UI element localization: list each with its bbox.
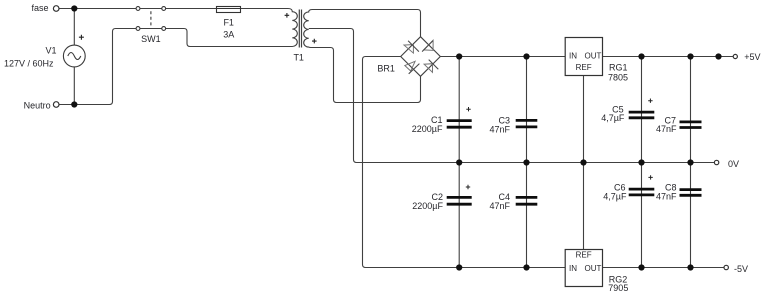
svg-text:2200µF: 2200µF bbox=[412, 201, 443, 211]
svg-text:T1: T1 bbox=[293, 52, 304, 62]
svg-text:REF: REF bbox=[576, 63, 592, 72]
svg-text:REF: REF bbox=[576, 251, 592, 260]
svg-text:OUT: OUT bbox=[585, 264, 602, 273]
svg-text:4,7µF: 4,7µF bbox=[601, 113, 625, 123]
svg-text:F1: F1 bbox=[223, 18, 234, 28]
svg-text:Neutro: Neutro bbox=[24, 100, 51, 110]
svg-text:7905: 7905 bbox=[608, 283, 628, 293]
svg-text:4,7µF: 4,7µF bbox=[603, 192, 627, 202]
svg-text:3A: 3A bbox=[223, 30, 234, 40]
svg-text:2200µF: 2200µF bbox=[412, 124, 443, 134]
svg-text:47nF: 47nF bbox=[489, 125, 510, 135]
svg-text:47nF: 47nF bbox=[656, 124, 677, 134]
svg-text:-5V: -5V bbox=[734, 264, 748, 274]
svg-text:IN: IN bbox=[569, 52, 577, 61]
svg-text:fase: fase bbox=[31, 3, 48, 13]
svg-text:47nF: 47nF bbox=[656, 192, 677, 202]
svg-text:OUT: OUT bbox=[585, 52, 602, 61]
svg-text:+5V: +5V bbox=[744, 52, 760, 62]
svg-text:RG1: RG1 bbox=[609, 63, 628, 73]
svg-text:47nF: 47nF bbox=[489, 201, 510, 211]
svg-text:7805: 7805 bbox=[608, 72, 628, 82]
svg-text:V1: V1 bbox=[45, 46, 56, 56]
svg-text:IN: IN bbox=[569, 264, 577, 273]
svg-text:SW1: SW1 bbox=[141, 34, 161, 44]
svg-text:0V: 0V bbox=[728, 159, 739, 169]
svg-text:BR1: BR1 bbox=[377, 64, 395, 74]
svg-text:127V / 60Hz: 127V / 60Hz bbox=[4, 59, 54, 69]
